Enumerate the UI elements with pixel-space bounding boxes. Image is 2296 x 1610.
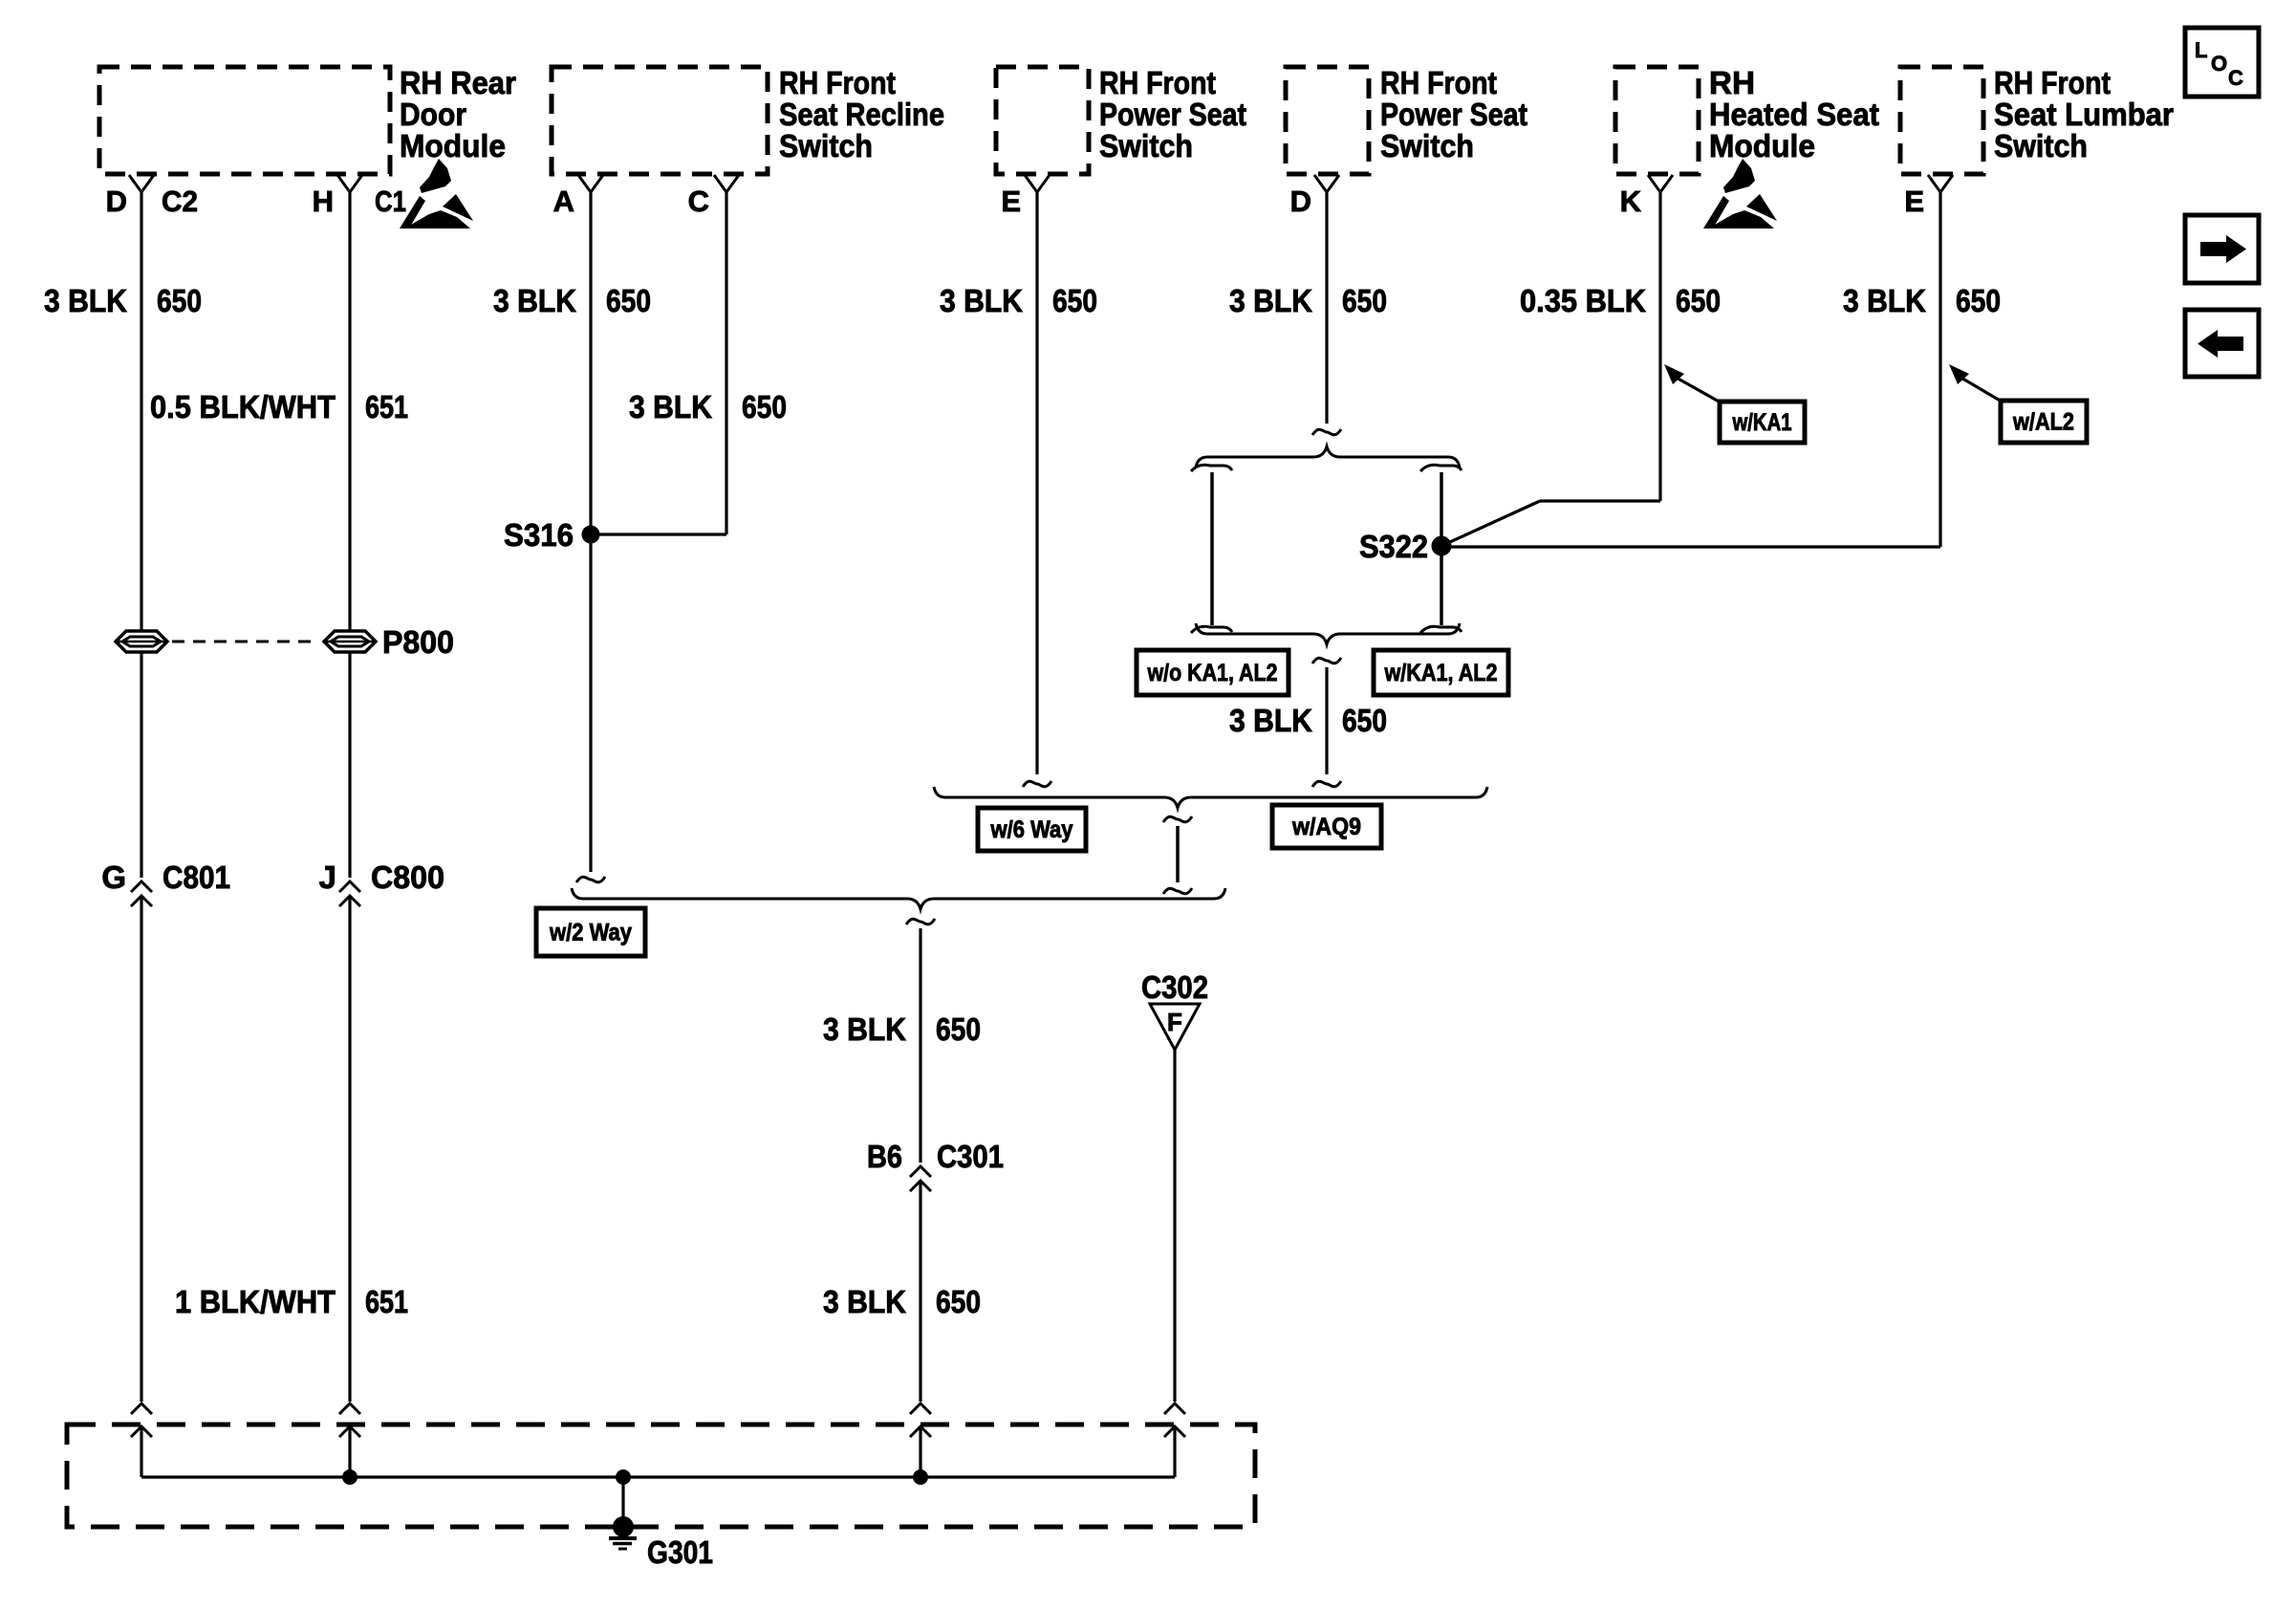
svg-text:J: J [319,859,336,895]
svg-text:Switch: Switch [1099,128,1193,163]
svg-text:Module: Module [400,128,506,163]
svg-text:Power Seat: Power Seat [1380,97,1527,132]
svg-text:650: 650 [742,389,787,424]
svg-text:w/6 Way: w/6 Way [990,816,1073,843]
svg-text:650: 650 [936,1284,981,1319]
svg-text:650: 650 [1052,283,1097,318]
svg-text:3 BLK: 3 BLK [1229,703,1312,738]
svg-text:0.5 BLK/WHT: 0.5 BLK/WHT [150,389,336,424]
svg-text:w/o KA1, AL2: w/o KA1, AL2 [1147,660,1278,686]
svg-text:E: E [1904,185,1924,218]
svg-text:Heated Seat: Heated Seat [1709,97,1879,132]
svg-text:S316: S316 [504,517,574,553]
svg-text:D: D [106,185,127,218]
svg-text:3 BLK: 3 BLK [44,283,127,318]
svg-text:3 BLK: 3 BLK [1843,283,1926,318]
svg-text:C302: C302 [1141,969,1208,1005]
svg-text:C801: C801 [162,859,230,895]
svg-text:w/2 Way: w/2 Way [549,920,632,946]
svg-text:w/AQ9: w/AQ9 [1291,814,1361,840]
svg-text:A: A [553,185,574,218]
svg-text:RH Front: RH Front [1380,65,1497,100]
svg-text:650: 650 [1342,283,1387,318]
svg-text:P800: P800 [382,624,454,660]
svg-text:Seat Recline: Seat Recline [779,97,944,132]
svg-text:G: G [101,859,126,895]
svg-text:Seat Lumbar: Seat Lumbar [1994,97,2174,132]
svg-text:O: O [2211,52,2227,76]
svg-text:Module: Module [1709,128,1815,163]
svg-text:650: 650 [1342,703,1387,738]
svg-text:E: E [1001,185,1021,218]
svg-text:Power Seat: Power Seat [1099,97,1246,132]
svg-text:L: L [2195,38,2207,62]
svg-text:3 BLK: 3 BLK [823,1284,906,1319]
svg-text:C: C [688,185,709,218]
svg-text:D: D [1290,185,1311,218]
svg-text:RH Rear: RH Rear [400,65,516,100]
svg-text:650: 650 [606,283,651,318]
svg-text:1 BLK/WHT: 1 BLK/WHT [175,1284,336,1319]
svg-text:S322: S322 [1359,529,1428,564]
svg-text:651: 651 [365,389,408,424]
svg-text:RH: RH [1709,65,1755,100]
svg-text:RH Front: RH Front [1994,65,2111,100]
svg-text:C800: C800 [371,859,444,895]
svg-text:3 BLK: 3 BLK [940,283,1023,318]
svg-text:Door: Door [400,97,466,132]
svg-text:RH Front: RH Front [1099,65,1216,100]
svg-text:B6: B6 [867,1139,902,1174]
svg-text:C1: C1 [375,185,406,218]
svg-text:650: 650 [1676,283,1721,318]
svg-text:650: 650 [936,1012,981,1047]
svg-text:Switch: Switch [1994,128,2088,163]
svg-text:3 BLK: 3 BLK [1229,283,1312,318]
svg-text:RH Front: RH Front [779,65,896,100]
svg-text:w/AL2: w/AL2 [2012,409,2074,436]
svg-text:w/KA1, AL2: w/KA1, AL2 [1384,660,1498,686]
svg-text:F: F [1167,1008,1182,1036]
svg-text:3 BLK: 3 BLK [823,1012,906,1047]
svg-text:K: K [1620,185,1642,218]
svg-text:Switch: Switch [779,128,873,163]
svg-text:Switch: Switch [1380,128,1474,163]
svg-text:w/KA1: w/KA1 [1732,409,1792,436]
svg-text:H: H [313,185,334,218]
svg-text:C: C [2228,66,2243,90]
svg-text:3 BLK: 3 BLK [493,283,576,318]
svg-text:651: 651 [365,1284,408,1319]
svg-text:650: 650 [1956,283,2001,318]
svg-text:650: 650 [157,283,202,318]
svg-text:3 BLK: 3 BLK [629,389,712,424]
svg-text:G301: G301 [647,1534,713,1570]
svg-text:C301: C301 [937,1139,1004,1174]
svg-text:C2: C2 [162,185,198,218]
svg-text:0.35 BLK: 0.35 BLK [1520,283,1646,318]
